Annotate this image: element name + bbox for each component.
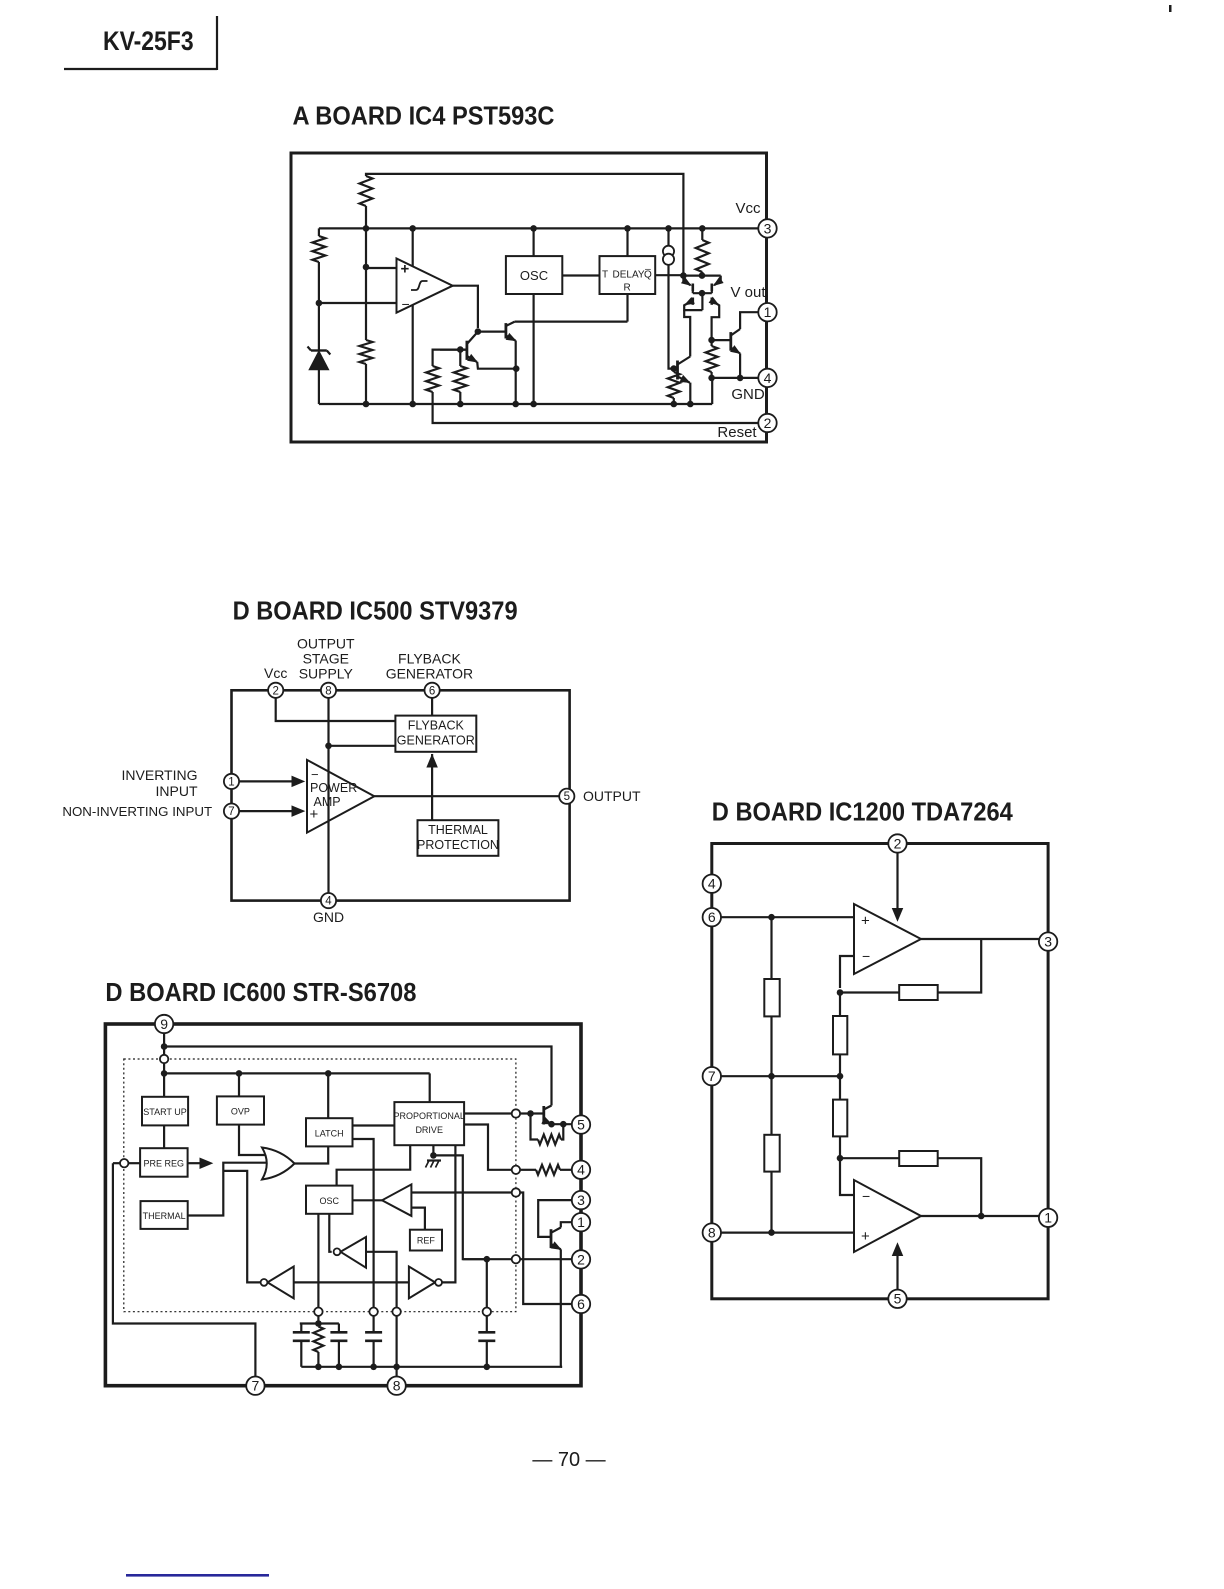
IC4 ground rail wire: [319, 403, 712, 405]
wire comparator output: [453, 286, 478, 328]
OSC box: [506, 256, 562, 294]
wire PD ground tap: [432, 1145, 434, 1155]
wire Q8 collector to pin 1: [740, 312, 758, 329]
wire rail to PD box: [429, 1073, 431, 1102]
svg-text:OVP: OVP: [231, 1107, 250, 1117]
resistor R5: [459, 350, 461, 366]
OR gate G1: [262, 1148, 295, 1180]
svg-text:T: T: [602, 270, 608, 281]
transistor Q7 lower driver: [676, 361, 679, 380]
svg-text:6: 6: [708, 909, 716, 925]
pin 2 circle: [268, 683, 283, 698]
transistor Q5 output stage lower left: [691, 298, 694, 305]
resistor R4: [426, 366, 439, 392]
pin 4: [703, 875, 721, 893]
wire non-inverting input arrow: [239, 810, 295, 812]
pin 8: [387, 1377, 405, 1395]
T DELAY box U2: [600, 256, 656, 294]
wire pin6 to flyback generator: [431, 698, 433, 716]
svg-text:3: 3: [577, 1192, 585, 1208]
wire thermal to OR: [188, 1163, 266, 1216]
svg-text:−: −: [862, 948, 870, 964]
IC600 outer box: [105, 1024, 581, 1386]
transistor Q4 output stage upper right: [710, 284, 713, 292]
wire zener anode to ground rail: [318, 370, 320, 405]
IC4 outer box: [291, 153, 767, 442]
svg-text:4: 4: [577, 1162, 585, 1178]
wire pin6 to + input: [719, 916, 854, 918]
wire pin8 to + input: [719, 1231, 854, 1233]
capacitor C2: [338, 1324, 340, 1333]
wire Q5 emitter to pin 5: [552, 1123, 572, 1125]
svg-text:4: 4: [325, 896, 332, 908]
svg-text:OUTPUT: OUTPUT: [583, 788, 641, 804]
svg-text:LATCH: LATCH: [315, 1129, 344, 1139]
pin 5 output: [559, 789, 574, 804]
page model label KV-25F3: [64, 16, 217, 70]
svg-text:5: 5: [564, 791, 570, 803]
node comparator + input: [363, 264, 370, 271]
wire T3 input from thermal node: [223, 1171, 260, 1283]
wire pin2 Vcc to flyback: [276, 698, 396, 721]
svg-text:+: +: [310, 806, 319, 823]
ground symbol: [427, 1159, 441, 1161]
OSC box: [306, 1186, 353, 1214]
svg-text:1: 1: [764, 304, 772, 320]
svg-text:4: 4: [708, 876, 716, 892]
svg-text:−: −: [862, 1188, 870, 1204]
svg-text:OUTPUT: OUTPUT: [297, 636, 355, 652]
stray scan tick top right: [1169, 5, 1172, 12]
wire output stage left leg: [684, 310, 690, 356]
IC1200 outer box: [712, 844, 1048, 1299]
wire pin8 supply: [327, 698, 329, 893]
capacitor C1: [300, 1324, 302, 1333]
wire pin5 arrow: [896, 1246, 898, 1289]
svg-text:4: 4: [764, 370, 772, 386]
wire A1 - input: [840, 956, 854, 988]
wire T-delay to Vcc: [626, 228, 628, 256]
transistor Q6 right lower: [550, 1229, 553, 1248]
svg-text:GND: GND: [731, 386, 765, 403]
inverter T4: [409, 1267, 435, 1299]
wire OSC to Vcc: [532, 228, 534, 256]
pin 8: [703, 1223, 721, 1241]
blue footer line: [126, 1574, 269, 1577]
wire Q-bar output: [655, 274, 683, 276]
wire rail to OVP: [238, 1073, 240, 1096]
wire Q1 emitter: [477, 362, 516, 369]
wire Vcc-to-ground crossing line: [412, 228, 414, 404]
IC4 reset wire to pin 2: [433, 392, 758, 423]
wire R-fb1 to node: [840, 991, 899, 993]
IC4 Vcc rail wire to pin 3: [319, 227, 758, 229]
wire pin7 rail: [719, 1075, 840, 1077]
svg-text:3: 3: [1044, 934, 1052, 950]
svg-text:Vcc: Vcc: [735, 200, 761, 217]
wire OSC to T-delay: [562, 274, 599, 276]
zener diode D1: [311, 349, 327, 351]
svg-text:2: 2: [272, 685, 278, 697]
svg-text:1: 1: [577, 1214, 585, 1230]
wire T1 to OSC: [353, 1199, 383, 1201]
wire rail to Q6 emitter riser: [561, 1366, 562, 1368]
pin 7: [246, 1377, 264, 1395]
comparator U1: [397, 259, 453, 313]
pin 4: [572, 1161, 590, 1179]
svg-text:SUPPLY: SUPPLY: [299, 666, 354, 682]
junction pin8/flyback feed: [325, 743, 332, 750]
boundary circles on dashed box: [160, 1055, 168, 1063]
transistor Q3 output stage upper left: [691, 284, 694, 292]
svg-text:THERMAL: THERMAL: [428, 823, 488, 837]
wire rail to LATCH: [327, 1073, 329, 1118]
svg-text:STAGE: STAGE: [303, 651, 349, 667]
wire Q6 emitter down to cap rail: [560, 1249, 562, 1366]
IC500 outer box: [232, 690, 570, 900]
svg-text:Q̅: Q̅: [644, 269, 652, 281]
wire OSC bottom to timing node: [317, 1214, 319, 1308]
svg-text:8: 8: [708, 1225, 716, 1241]
REF box: [410, 1230, 442, 1251]
THERMAL box: [141, 1201, 188, 1229]
svg-text:POWER: POWER: [310, 781, 357, 795]
svg-text:PROPORTIONAL: PROPORTIONAL: [394, 1111, 465, 1121]
svg-text:2: 2: [894, 835, 902, 851]
pin 1 V out: [758, 303, 776, 321]
svg-text:1: 1: [1044, 1210, 1052, 1226]
wire Q8 emitter to pin 4: [739, 354, 741, 378]
node A2 feedback: [837, 1155, 844, 1162]
wire left feed down to pin 7: [113, 1163, 256, 1377]
THERMAL PROTECTION box: [418, 820, 499, 856]
svg-text:FLYBACK: FLYBACK: [398, 651, 461, 667]
svg-text:V out: V out: [730, 284, 766, 301]
wire OSC top to PD: [337, 1145, 411, 1185]
junction R1/Vcc rail: [363, 225, 370, 232]
wire R2 to zener node: [318, 262, 320, 303]
node A1 feedback: [837, 989, 844, 996]
resistor R-osc: [313, 1327, 323, 1353]
svg-text:GENERATOR: GENERATOR: [397, 734, 475, 748]
node output stage top rail: [683, 275, 720, 277]
capacitor C3: [373, 1316, 375, 1332]
transistor Q5 right upper: [520, 1112, 544, 1114]
svg-text:7: 7: [228, 806, 234, 818]
inverter T1 buffer: [382, 1184, 411, 1216]
svg-text:THERMAL: THERMAL: [143, 1211, 186, 1221]
wire Q2 emitter to ground rail: [515, 341, 517, 405]
op-amp A1: [854, 904, 921, 974]
svg-text:7: 7: [708, 1068, 716, 1084]
pin 6: [703, 908, 721, 926]
inverter T2: [341, 1237, 367, 1268]
wire pin6 path: [520, 1193, 572, 1305]
current source CS1: [667, 228, 669, 246]
svg-text:GND: GND: [313, 909, 344, 925]
LATCH box: [306, 1118, 353, 1146]
wire LATCH to PD: [353, 1124, 395, 1126]
wire Q2 collector to T-delay R input: [515, 321, 628, 323]
wire thermal protection to flyback arrow: [431, 754, 433, 820]
wire prereg input: [113, 1162, 120, 1164]
wire OR output to LATCH: [295, 1146, 329, 1163]
resistor R8: [706, 346, 718, 372]
capacitor C4: [486, 1316, 488, 1332]
resistor R-pin4: [520, 1169, 536, 1171]
capacitor C4 feed: [463, 1258, 487, 1260]
svg-text:9: 9: [160, 1016, 168, 1032]
svg-text:Reset: Reset: [717, 424, 757, 441]
svg-text:R: R: [624, 283, 631, 294]
svg-text:+: +: [861, 913, 870, 930]
pin 2: [888, 834, 906, 852]
pin 1 inverting input: [224, 774, 239, 789]
svg-text:−: −: [311, 767, 319, 782]
pin 9: [155, 1015, 173, 1033]
wire A2 - input: [840, 1158, 854, 1195]
wire zener cathode: [318, 303, 320, 350]
IC600 dashed inner box: [124, 1059, 516, 1312]
IC4 top feedback wire: [366, 174, 683, 276]
resistor R2 left: [312, 236, 325, 262]
pin 5: [888, 1290, 906, 1308]
svg-text:DELAY: DELAY: [613, 270, 645, 281]
wire second rail: [164, 1072, 430, 1074]
wire PD output lower to pin 4 path: [464, 1125, 512, 1170]
wire startup to prereg: [163, 1125, 165, 1148]
wire - input: [319, 302, 397, 304]
wire A2 output to pin 1: [921, 1215, 1039, 1217]
svg-text:8: 8: [325, 685, 331, 697]
svg-text:7: 7: [252, 1378, 260, 1394]
svg-text:A BOARD IC4 PST593C: A BOARD IC4 PST593C: [293, 101, 555, 131]
svg-text:D BOARD IC600 STR-S6708: D BOARD IC600 STR-S6708: [105, 977, 416, 1007]
wire T3 to T4 link: [294, 1281, 409, 1283]
wire Q7 emitter to ground rail: [689, 383, 691, 404]
pin 7 non-inverting input: [224, 804, 239, 819]
wire + input: [366, 267, 397, 269]
wire PD output upper to Q5 base: [464, 1112, 512, 1114]
wire R3 to ground rail: [365, 364, 367, 404]
svg-text:8: 8: [393, 1378, 401, 1394]
wire pin2 arrow into op-amp A1: [896, 853, 898, 918]
OVP box: [217, 1096, 264, 1124]
POWER AMP triangle: [307, 760, 374, 833]
node comparator - input: [316, 300, 323, 307]
transistor Q1: [475, 328, 482, 335]
pin 2 wire: [520, 1258, 572, 1260]
svg-text:INPUT: INPUT: [156, 783, 198, 799]
wire T1 base to pin6 path: [411, 1191, 511, 1193]
svg-text:FLYBACK: FLYBACK: [408, 719, 465, 733]
wire R1 to comparator + node: [365, 206, 367, 267]
resistor R-left upper: [764, 979, 779, 1016]
pin 1: [1039, 1209, 1057, 1227]
pin 1: [572, 1213, 590, 1231]
svg-text:3: 3: [764, 220, 772, 236]
pin 3: [1039, 932, 1057, 950]
resistor R-left lower: [764, 1135, 779, 1172]
svg-text:Vcc: Vcc: [264, 665, 287, 681]
pin 4 GND: [321, 893, 336, 908]
START UP box: [142, 1097, 188, 1126]
FLYBACK GENERATOR box: [395, 716, 476, 752]
pin 3: [572, 1191, 590, 1209]
wire A1 output to pin 3: [921, 938, 1039, 940]
svg-text:GENERATOR: GENERATOR: [386, 666, 473, 682]
wire T4 output to PD: [442, 1145, 455, 1282]
wire pin9 feed: [163, 1033, 165, 1097]
resistor R-q5: [531, 1114, 539, 1140]
wire Q1 base network: [433, 350, 467, 366]
wire A2 feedback: [938, 1158, 982, 1216]
pin 2 Reset: [758, 414, 776, 432]
svg-text:5: 5: [577, 1117, 585, 1133]
wire GND rail riser: [711, 378, 713, 404]
resistor R3 divider: [365, 267, 367, 340]
wire LATCH lower tap: [353, 1139, 374, 1308]
resistor R6 right: [701, 228, 703, 240]
wire Q3 Q4 bases joined: [693, 292, 712, 294]
wire output stage center leg: [701, 293, 703, 310]
svg-text:NON-INVERTING INPUT: NON-INVERTING INPUT: [62, 804, 212, 819]
svg-text:PRE REG: PRE REG: [144, 1159, 185, 1169]
svg-text:D BOARD IC1200 TDA7264: D BOARD IC1200 TDA7264: [712, 797, 1013, 827]
svg-text:REF: REF: [417, 1236, 436, 1246]
svg-text:START UP: START UP: [143, 1107, 187, 1117]
pin 2: [572, 1250, 590, 1268]
svg-text:+: +: [861, 1228, 870, 1245]
resistor R1 feedback: [360, 176, 373, 206]
resistor R-in chain lower: [833, 1100, 847, 1137]
wire T1 to REF: [411, 1208, 425, 1230]
pin 3 Vcc: [758, 219, 776, 237]
PRE REG box: [140, 1148, 188, 1177]
wire top rail to Q5 collector: [164, 1047, 551, 1106]
wire PD tap to pin2 path: [433, 1155, 511, 1259]
op-amp A2: [854, 1180, 921, 1252]
svg-text:+: +: [401, 261, 410, 278]
svg-text:INVERTING: INVERTING: [122, 767, 198, 783]
wire cap top node: [300, 1322, 339, 1324]
transistor Q8 output: [729, 332, 732, 351]
svg-text:6: 6: [577, 1296, 585, 1312]
wire OSC to ground rail: [532, 294, 534, 404]
svg-text:D BOARD IC500 STV9379: D BOARD IC500 STV9379: [233, 596, 518, 626]
pin 8 circle: [321, 683, 336, 698]
resistor R-fb2: [899, 1151, 938, 1166]
wire pin3 to Q6 base: [538, 1200, 572, 1237]
pin 4 GND: [758, 369, 776, 387]
svg-text:OSC: OSC: [319, 1196, 339, 1206]
inverter T3: [268, 1267, 294, 1299]
wire OSC to inverter T2: [329, 1214, 331, 1252]
pin 5: [572, 1115, 590, 1133]
pin 7: [703, 1067, 721, 1085]
resistor R7: [673, 369, 675, 372]
wire output to pin 5: [374, 795, 559, 797]
svg-text:KV-25F3: KV-25F3: [103, 26, 194, 56]
svg-text:OSC: OSC: [520, 268, 548, 283]
pin 6 circle: [425, 683, 440, 698]
svg-text:2: 2: [764, 415, 772, 431]
wire A1 feedback: [938, 939, 982, 993]
svg-text:2: 2: [577, 1251, 585, 1267]
wire R2 top to Vcc rail: [318, 228, 320, 236]
resistor R-in chain upper: [833, 1016, 847, 1054]
svg-text:5: 5: [894, 1291, 902, 1307]
wire pin8 riser: [396, 1316, 398, 1377]
svg-text:−: −: [402, 296, 410, 312]
svg-text:— 70 —: — 70 —: [532, 1449, 605, 1471]
transistor Q2: [504, 323, 507, 338]
arrow prereg output: [188, 1162, 201, 1164]
wire inverting input arrow: [239, 780, 295, 782]
svg-text:6: 6: [429, 685, 435, 697]
svg-text:PROTECTION: PROTECTION: [417, 838, 499, 852]
pin 6: [572, 1295, 590, 1313]
PROPORTIONAL DRIVE box: [394, 1102, 464, 1145]
resistor R-fb1: [899, 985, 938, 1000]
cap ground rail: [301, 1366, 562, 1368]
transistor Q6 output stage lower right: [710, 298, 713, 305]
node Q8 base: [708, 337, 715, 344]
wire T2 to pin8 path: [366, 1252, 397, 1308]
svg-text:DRIVE: DRIVE: [415, 1125, 443, 1135]
wire OVP to OR: [239, 1125, 267, 1155]
svg-text:1: 1: [228, 776, 234, 788]
